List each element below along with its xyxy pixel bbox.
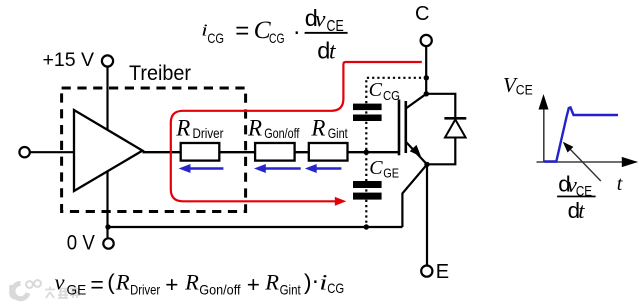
dashed driver box [62, 88, 246, 212]
input wire [30, 151, 76, 153]
V_CE curve [544, 108, 618, 162]
junction: gate wire / dotted net [364, 150, 369, 155]
svg-text:GE: GE [383, 165, 399, 180]
svg-text:Gint: Gint [328, 125, 348, 141]
watermark characters [45, 287, 80, 299]
svg-text:+15 V: +15 V [43, 49, 95, 71]
emitter terminal [421, 266, 432, 277]
red arrowhead [335, 197, 347, 206]
collector terminal [421, 35, 432, 46]
blue arrow under R_Driver [179, 164, 224, 173]
svg-text:t: t [578, 198, 585, 223]
svg-text:E: E [436, 261, 449, 283]
svg-text:C: C [369, 157, 383, 179]
collector wire [425, 46, 427, 94]
svg-text:CG: CG [383, 89, 400, 103]
emitter return path to 0V rail [402, 164, 427, 227]
emitter wire down [426, 164, 428, 265]
x axis [537, 161, 623, 163]
0V terminal [103, 238, 113, 248]
svg-text:Treiber: Treiber [129, 61, 191, 85]
diode branch wires [426, 94, 455, 118]
junction: diode branch / collector [424, 91, 429, 96]
svg-text:Driver: Driver [193, 125, 224, 141]
dv/dt pointer arrow [569, 148, 601, 181]
0V junction dot [105, 224, 110, 229]
svg-text:R: R [175, 115, 190, 140]
input terminal [19, 147, 29, 157]
svg-text:CG: CG [327, 280, 344, 296]
op-amp driver triangle [74, 110, 143, 191]
bottom 0V wire [108, 226, 402, 228]
junction: dotted net / collector [424, 75, 429, 80]
resistor R_Gint [309, 143, 348, 161]
main gate wire [143, 151, 181, 153]
svg-text:+: + [165, 272, 178, 297]
svg-text:R: R [184, 269, 199, 294]
svg-text:CG: CG [207, 30, 224, 46]
+15V supply wire [106, 67, 108, 239]
svg-text:v: v [55, 269, 65, 294]
svg-text:Gon/off: Gon/off [199, 281, 240, 297]
graph V_CE vs t [503, 73, 638, 223]
IGBT collector lead [406, 94, 427, 109]
svg-text:GE: GE [67, 281, 87, 297]
svg-text:R: R [115, 269, 130, 294]
capacitor C_CG plates [353, 104, 382, 111]
bottom equation: v_GE = ( R_Driver + R_Gon/off + R_Gint ) . i_CG [55, 268, 345, 298]
capacitor C_GE plates [353, 181, 382, 188]
svg-text:R: R [264, 269, 279, 294]
svg-text:CE: CE [516, 83, 533, 98]
svg-text:C: C [369, 79, 383, 101]
blue arrow under R_Gon/off [254, 164, 301, 173]
svg-text:CG: CG [269, 30, 285, 46]
IGBT emitter lead with arrow [406, 142, 427, 165]
svg-text:t: t [617, 173, 623, 195]
svg-text:R: R [247, 115, 262, 140]
emitter junction [424, 162, 429, 167]
svg-text:=: = [90, 271, 103, 297]
svg-text:i: i [319, 270, 327, 295]
IGBT body bar [404, 101, 407, 153]
watermark logo bottom-left [11, 280, 41, 299]
svg-text:t: t [329, 38, 336, 64]
y axis [543, 106, 545, 162]
svg-text:C: C [415, 3, 429, 25]
svg-text:·: · [311, 268, 319, 295]
svg-text:(: ( [107, 269, 115, 294]
top equation: i_CG = C_CG . dv_CE/dt [201, 5, 347, 64]
svg-text:Driver: Driver [130, 281, 160, 297]
svg-text:): ) [304, 269, 312, 294]
diode triangle [445, 120, 466, 138]
IGBT gate bar [398, 100, 401, 156]
svg-text:R: R [310, 115, 325, 140]
svg-text:v: v [315, 7, 326, 33]
svg-text:Gon/off: Gon/off [264, 125, 299, 141]
resistor R_Driver [181, 143, 220, 161]
diode cathode bar [444, 117, 466, 120]
svg-text:+: + [247, 272, 260, 297]
blue arrow under R_Gint [305, 164, 342, 173]
svg-text:0 V: 0 V [67, 232, 95, 255]
junction: 0V wire / dotted net [364, 224, 369, 229]
svg-text:Gint: Gint [280, 281, 301, 297]
red i_CG current path [171, 62, 422, 201]
+15V terminal [102, 55, 113, 66]
svg-text:·: · [293, 19, 301, 46]
dotted parasitic net: collector to C_CG/C_GE to 0V rail [366, 78, 426, 227]
resistor R_Gon/off [255, 143, 295, 161]
svg-text:=: = [235, 17, 249, 44]
